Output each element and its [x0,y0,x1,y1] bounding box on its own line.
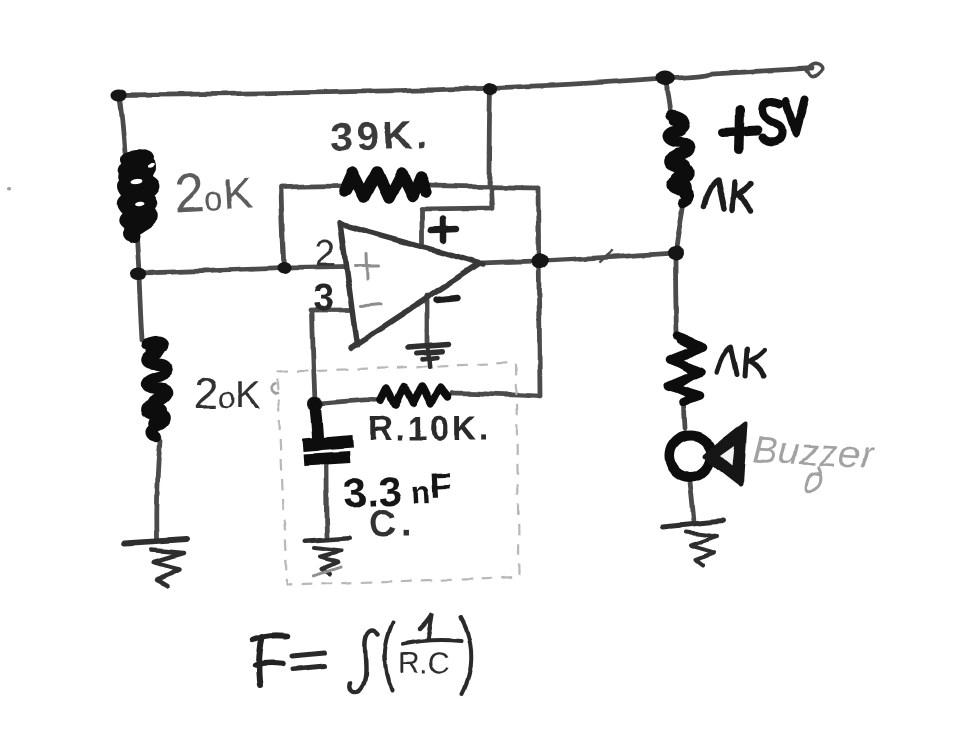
svg-text:R.10K.: R.10K. [368,410,492,448]
svg-text:2oK: 2oK [194,369,261,418]
svg-text:39K.: 39K. [330,113,432,160]
svg-text:2: 2 [315,233,336,275]
svg-text:3: 3 [313,277,334,319]
svg-text:C.: C. [369,503,415,545]
svg-text:Buzzer: Buzzer [752,429,876,477]
svg-text:2oK: 2oK [172,160,253,224]
svg-text:R.C: R.C [398,647,450,680]
